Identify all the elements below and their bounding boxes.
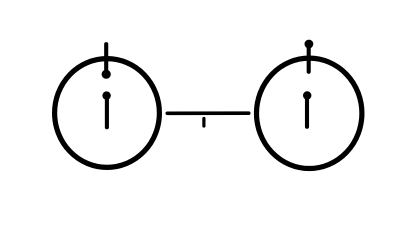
wire net between J1 and J2 [167,111,248,115]
J1 terminal contact dot [102,70,111,79]
J2 top terminal lead wire [307,46,311,72]
J2 terminal contact dot [305,40,314,49]
connector symbol J1 body circle [55,59,160,168]
connector symbol J2 body circle [257,58,362,168]
J1 top terminal lead wire [104,44,108,71]
J2 center pin shaft [305,98,309,127]
tick mark label 1 below wire [202,119,205,127]
J1 center pin shaft [105,98,109,127]
J2 center pin dot [303,91,311,99]
J1 center pin dot [102,91,110,99]
